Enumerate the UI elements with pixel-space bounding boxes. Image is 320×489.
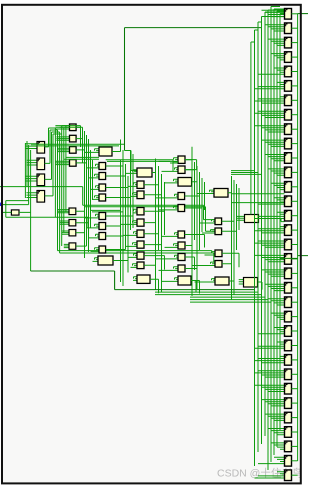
gate D9	[137, 262, 144, 269]
gate E7	[178, 242, 185, 249]
output cell R25	[285, 369, 292, 380]
wire gate E8 output	[185, 257, 195, 270]
wire gate C9 output	[106, 238, 126, 250]
wire latch E1 output	[185, 147, 192, 160]
wire R3 inputs	[271, 54, 285, 60]
wire gate C5 output	[106, 186, 131, 198]
wire feeder H299	[190, 299, 268, 301]
wire bus V8	[251, 7, 280, 471]
gate C6	[99, 213, 106, 220]
wire R31 inputs	[258, 457, 285, 463]
wire R3 output	[292, 56, 298, 58]
flip-flop A3	[37, 174, 45, 186]
wire wide mux F1 inputs	[197, 190, 214, 193]
wire gate F2 inputs	[200, 220, 216, 223]
wire gate D9 output	[144, 251, 156, 265]
gate B7	[69, 230, 76, 236]
wire R4 output	[292, 71, 298, 73]
gate D8	[137, 252, 144, 259]
wire B7 output	[76, 232, 85, 234]
output cell R28	[285, 412, 292, 423]
wire trunk pair mid	[58, 251, 214, 263]
wire gate F4 inputs	[205, 252, 216, 255]
wire A2 output	[45, 130, 58, 163]
wire B5 output	[76, 211, 85, 232]
wire bus V4	[121, 150, 134, 286]
wire R30 inputs	[271, 443, 285, 449]
wide mux E10	[178, 276, 191, 285]
wire gate E7 inputs	[165, 244, 179, 248]
wire R11 inputs	[268, 169, 285, 175]
gate E9	[178, 265, 185, 272]
wire feeder H302	[190, 301, 271, 303]
wire R28 output	[292, 417, 298, 419]
wire A4 output	[45, 134, 62, 196]
gate D6	[137, 230, 144, 237]
wire wide mux F6 inputs	[195, 279, 216, 282]
wire R8 output	[292, 128, 298, 130]
wire latch E1 inputs	[159, 158, 179, 162]
latch E2	[178, 166, 185, 173]
wire R21 output	[292, 316, 298, 318]
wire gate D4 output	[144, 211, 165, 225]
wire gate D6 output	[144, 234, 159, 248]
wire gate C5 inputs	[93, 196, 100, 200]
output cell R14	[285, 210, 292, 221]
wire offpage top-right	[298, 13, 308, 15]
wire gate D6 inputs	[123, 232, 137, 236]
wire bundle H171	[231, 171, 262, 175]
gate E8	[178, 254, 185, 261]
wire gate C6 output	[106, 216, 133, 228]
gate C7	[99, 223, 106, 230]
wire gate D5 inputs	[121, 221, 138, 225]
wire R15 inputs	[255, 227, 285, 233]
wire R17 inputs	[255, 255, 285, 261]
gate E5	[178, 205, 185, 212]
wire gate F2 output	[222, 221, 234, 235]
wire A1 output	[45, 128, 56, 147]
wire R27 inputs	[262, 400, 285, 406]
gate B6	[69, 220, 76, 226]
wire R22 inputs	[258, 328, 285, 334]
output cell R0	[285, 9, 292, 20]
wire gate E4 output	[185, 196, 200, 209]
wire A2 inputs	[26, 160, 37, 165]
wire gate C8 output	[106, 236, 123, 248]
wire R17 output	[292, 258, 298, 260]
output cell R10	[285, 153, 292, 164]
wire wide mux E3 inputs	[165, 179, 179, 183]
wire gate E9 inputs	[159, 267, 179, 271]
wire B1 inputs	[55, 126, 69, 129]
wire R14 inputs	[255, 212, 285, 218]
gate C5	[99, 194, 106, 201]
wire gate E6 inputs	[162, 233, 179, 237]
comparator G1	[245, 215, 259, 223]
wire R31 output	[292, 460, 298, 462]
wire long H202	[231, 202, 285, 204]
wire R29 output	[292, 431, 298, 433]
gate B2	[70, 135, 77, 142]
wire trunk lower-left	[31, 271, 115, 290]
wire R29 inputs	[268, 429, 285, 435]
port marker P1	[0, 203, 3, 206]
wire feeder H297	[190, 296, 265, 298]
wire R27 output	[292, 402, 298, 404]
wire R16 inputs	[255, 241, 285, 247]
wire gate D2 output	[144, 185, 159, 199]
output cell R1	[285, 23, 292, 34]
output cell R22	[285, 326, 292, 337]
wire R32 inputs	[255, 472, 285, 478]
gate D2	[137, 181, 144, 188]
output cell R17	[285, 254, 292, 265]
wire gate C4 inputs	[91, 186, 100, 190]
output cell R32	[285, 470, 292, 481]
output cell R11	[285, 167, 292, 178]
wire R2 inputs	[268, 39, 285, 45]
gate F5	[215, 261, 222, 268]
wire B1 output	[76, 127, 80, 131]
flip-flop A2	[37, 158, 45, 170]
wire gate C7 inputs	[87, 224, 100, 228]
wire R6 output	[292, 99, 298, 101]
gate F3	[215, 228, 222, 235]
wire feeder H294	[155, 294, 262, 296]
wire R5 output	[292, 85, 298, 87]
wire R24 inputs	[255, 356, 285, 362]
wire gate F4 output	[222, 253, 239, 267]
output cell R6	[285, 95, 292, 106]
wire long H194	[231, 193, 285, 195]
output cell R30	[285, 441, 292, 452]
wire gate E9 output	[185, 256, 197, 269]
wire comparator G2 inputs	[239, 280, 244, 284]
wire R16 output	[292, 244, 298, 246]
gate C2	[99, 163, 106, 170]
wire gate D9 inputs	[131, 264, 138, 268]
wire B7 inputs	[62, 231, 69, 234]
wide mux F1	[214, 189, 228, 198]
wire G2 output	[258, 282, 263, 290]
output cell R19	[285, 282, 292, 293]
wire G1 output	[259, 219, 285, 222]
gate D3	[137, 191, 144, 199]
wire B2 inputs	[56, 137, 69, 140]
wire R1 output	[292, 27, 298, 29]
wire F6 down	[229, 281, 234, 295]
wire R25 inputs	[255, 371, 285, 377]
flip-flop A4	[37, 191, 45, 203]
wire offpage mid-right	[280, 256, 308, 259]
output cell R13	[285, 196, 292, 207]
wire trunk H205a	[83, 205, 215, 219]
wire gate C2 output	[106, 166, 123, 178]
latch E1	[178, 156, 185, 163]
output cell R3	[285, 52, 292, 63]
wire bus V2	[55, 126, 66, 253]
output cell R8	[285, 124, 292, 135]
wire R14 output	[292, 215, 298, 217]
wire R8 inputs	[255, 126, 285, 132]
output cell R29	[285, 427, 292, 438]
wire gate D4 inputs	[133, 209, 137, 213]
wire net_in_c	[6, 201, 88, 228]
gate C4	[99, 184, 106, 191]
wire R2 output	[292, 42, 298, 44]
wire wide mux F6 output	[229, 281, 234, 295]
gate B4	[70, 160, 77, 167]
wire R20 output	[292, 301, 298, 303]
wire R26 inputs	[255, 385, 285, 391]
gate B1	[70, 124, 77, 131]
wire R4 inputs	[258, 68, 285, 74]
wire wide mux C10 inputs	[93, 258, 99, 262]
gate D4	[137, 208, 144, 215]
wire wide mux E3 output	[192, 169, 197, 182]
wire pair H159	[106, 160, 173, 162]
gate C8	[99, 233, 106, 240]
output cell R24	[285, 355, 292, 366]
output cell R31	[285, 456, 292, 467]
wire wide mux F1 output	[228, 179, 232, 193]
wire gate C8 inputs	[89, 234, 100, 238]
wire R23 output	[292, 345, 298, 347]
wide mux E3	[178, 178, 192, 187]
wire wide mux C10 output	[113, 261, 128, 273]
wire wide mux D10 output	[150, 279, 159, 293]
output cell R16	[285, 239, 292, 250]
wire R32 output	[292, 474, 298, 476]
output cell R4	[285, 66, 292, 77]
wire A1 inputs	[25, 144, 37, 149]
wire R15 output	[292, 229, 298, 231]
wire R28 inputs	[265, 414, 285, 420]
wire V8 top elbows	[251, 7, 285, 43]
wire wide mux C1 inputs	[85, 149, 100, 153]
wire gate D3 output	[144, 181, 162, 195]
wire B3 output	[76, 150, 84, 195]
wire R6 inputs	[255, 97, 285, 103]
wire gate D7 output	[144, 231, 162, 245]
wire gate C3 output	[106, 164, 126, 176]
wire gate E5 output	[185, 195, 202, 208]
wire gate E4 inputs	[156, 194, 179, 198]
wire A3 inputs	[25, 176, 37, 181]
wire comparator G1 inputs	[236, 216, 244, 220]
wire wide mux E10 inputs	[162, 278, 179, 282]
wire R0 inputs	[262, 10, 285, 16]
wire gate D8 inputs	[128, 254, 137, 258]
wire R22 output	[292, 330, 298, 332]
wire bus V1	[25, 141, 30, 271]
gate D7	[137, 241, 144, 248]
wire R9 output	[292, 143, 298, 145]
wire R5 inputs	[255, 82, 285, 88]
wire bus V3	[85, 131, 93, 258]
gate D5	[137, 219, 144, 226]
wire R11 output	[292, 171, 298, 173]
wire R9 inputs	[262, 140, 285, 146]
wire R7 inputs	[255, 111, 285, 117]
wire R13 inputs	[258, 198, 285, 204]
wire net_in_a	[2, 204, 29, 206]
wire bus OUT	[297, 14, 299, 461]
output cell R23	[285, 340, 292, 351]
comparator G2	[244, 278, 258, 288]
wire B6 output	[76, 223, 89, 240]
wire R10 output	[292, 157, 298, 159]
wire R20 inputs	[268, 299, 285, 305]
wire gate E8 inputs	[156, 255, 179, 259]
flip-flop A1	[37, 142, 45, 154]
gate C3	[99, 173, 106, 180]
output cell R2	[285, 37, 292, 48]
wire wide mux E10 output	[191, 281, 200, 294]
wire latch E2 output	[185, 170, 195, 183]
wire trunk top	[125, 28, 262, 151]
wire net_in_b	[2, 211, 31, 213]
wire R19 output	[292, 287, 298, 289]
wire gate C2 inputs	[87, 164, 100, 168]
wide mux D1	[137, 168, 152, 177]
output cell R5	[285, 81, 292, 92]
wire wide mux D10 inputs	[133, 277, 137, 281]
output cell R9	[285, 138, 292, 149]
wire gate D5 output	[144, 209, 156, 223]
wire B4 inputs	[55, 161, 69, 164]
wire gate C6 inputs	[85, 214, 100, 218]
output cell R12	[285, 182, 292, 193]
wire E feedback loop	[170, 160, 197, 171]
output cell R21	[285, 311, 292, 322]
wire gate F3 output	[222, 217, 237, 231]
wire R1 inputs	[265, 25, 285, 31]
wire R25 output	[292, 373, 298, 375]
wire gate E7 output	[185, 233, 192, 246]
wire pair H157	[64, 157, 99, 159]
wire trunk elbow mid	[125, 151, 138, 171]
gate B3	[70, 147, 77, 154]
wire pair H144	[31, 144, 125, 146]
wire feeder H289	[115, 289, 255, 291]
wire R12 inputs	[271, 183, 285, 189]
wire B8 inputs	[64, 244, 69, 247]
wire R7 output	[292, 114, 298, 116]
gate E6	[178, 231, 185, 238]
wire trunk H206b	[85, 207, 215, 232]
wire B2 output	[76, 139, 82, 163]
wire B3 inputs	[57, 148, 69, 151]
wire R12 output	[292, 186, 298, 188]
input port IBUF	[11, 210, 19, 215]
wire pair H210	[90, 210, 123, 212]
wire gate E6 output	[185, 235, 205, 248]
wire gate D3 inputs	[131, 193, 138, 197]
output cell R18	[285, 268, 292, 279]
wire R30 output	[292, 445, 298, 447]
wire E10 down	[191, 281, 196, 293]
wire B5 inputs	[58, 210, 70, 213]
wire gate E5 inputs	[159, 206, 179, 210]
wire gate D8 output	[144, 256, 165, 270]
wide mux D10	[137, 275, 150, 283]
gate C9	[99, 246, 106, 253]
output cell R20	[285, 297, 292, 308]
wide mux C10	[98, 256, 113, 265]
wire gate C4 output	[106, 188, 128, 200]
wire R10 inputs	[265, 155, 285, 161]
wire gate C7 output	[106, 214, 121, 226]
output cell R26	[285, 383, 292, 394]
wire wide mux C1 output	[112, 140, 121, 152]
wide mux F6	[215, 277, 229, 285]
wire wide mux D1 output	[152, 159, 156, 173]
wire R26 output	[292, 388, 298, 390]
gate B5	[69, 208, 76, 215]
gate F2	[215, 218, 222, 225]
wire gate C9 inputs	[91, 248, 100, 252]
wire gate D7 inputs	[126, 243, 138, 247]
gate B8	[69, 243, 76, 249]
wire net_in_offpage	[0, 187, 83, 206]
wire gate F5 inputs	[192, 262, 215, 265]
wire bus V6	[192, 158, 205, 296]
wire wide mux D1 inputs	[126, 170, 138, 174]
wire B4 output	[76, 163, 86, 227]
wire A3 output	[45, 132, 60, 179]
gate E4	[178, 193, 185, 200]
wire pair B top	[60, 126, 83, 150]
wire R0 output	[292, 13, 298, 15]
wide mux C1	[99, 147, 112, 156]
output cell R7	[285, 109, 292, 120]
wire R24 output	[292, 359, 298, 361]
wire bus V5	[156, 162, 165, 292]
gate F4	[215, 250, 222, 257]
output cell R15	[285, 225, 292, 236]
wire R21 inputs	[271, 313, 285, 319]
wire R23 inputs	[255, 342, 285, 348]
wire gate F5 output	[222, 250, 232, 264]
wire gate F3 inputs	[202, 230, 215, 233]
wire bus V7	[232, 176, 240, 300]
wire A4 inputs	[26, 193, 37, 198]
wire feeder H292	[155, 291, 258, 293]
wire gate D2 inputs	[128, 183, 137, 187]
wire R13 output	[292, 200, 298, 202]
wire gate C3 inputs	[89, 174, 100, 178]
wire latch E2 inputs	[162, 168, 179, 172]
wire B6 inputs	[60, 221, 69, 224]
output cell R27	[285, 398, 292, 409]
wire R18 output	[292, 272, 298, 274]
wire R18 inputs	[262, 270, 285, 276]
wire R19 inputs	[265, 284, 285, 290]
wire B8 output	[76, 245, 87, 247]
